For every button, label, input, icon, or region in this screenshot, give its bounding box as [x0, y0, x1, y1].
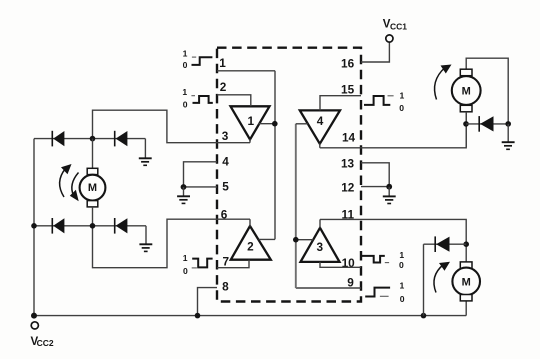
svg-text:1: 1 [183, 49, 188, 59]
svg-text:CC2: CC2 [37, 338, 54, 348]
waveform input pin7 (pulse low) [183, 253, 213, 276]
svg-text:1: 1 [400, 90, 405, 100]
svg-text:2: 2 [220, 80, 227, 94]
svg-text:1: 1 [182, 87, 187, 97]
driver 3 (bottom-right, pointing up) [301, 228, 340, 262]
wire pin16 to VCC1 [361, 42, 389, 62]
wire pin9 to enable line [296, 124, 361, 288]
wire enable tap driver 1 [258, 123, 275, 125]
svg-text:13: 13 [341, 157, 355, 171]
wire pin15 to driver4 input [320, 96, 361, 111]
waveform input pin2 (pulse high) [182, 87, 212, 110]
svg-text:0: 0 [183, 60, 188, 70]
svg-text:3: 3 [317, 240, 324, 254]
svg-text:16: 16 [341, 57, 355, 71]
svg-text:4: 4 [317, 114, 324, 128]
ground pins 4-5 [177, 187, 190, 203]
rotation arrow left motor (double) [60, 164, 79, 201]
pin 3 label [222, 129, 229, 143]
ground upper-left diode row [139, 139, 152, 166]
waveform input pin9 (step up) [365, 281, 405, 304]
node enable junction driver 1 [272, 121, 278, 127]
rotation arrow top right motor [435, 65, 452, 100]
wire enable tap driver 2 [259, 238, 275, 240]
svg-text:2: 2 [247, 240, 254, 254]
svg-text:1: 1 [183, 253, 188, 263]
terminal VCC2 [31, 322, 38, 329]
svg-text:0: 0 [399, 260, 404, 270]
waveform input pin1 (step up) [183, 49, 213, 70]
pin 8 label [222, 280, 229, 294]
node VCC2 rail left corner [31, 313, 37, 319]
pin 2 label [220, 80, 227, 94]
svg-text:1: 1 [400, 281, 405, 291]
svg-text:0: 0 [183, 100, 188, 110]
pin 5 label [222, 180, 229, 194]
node left motor bottom junction [90, 223, 96, 229]
diode D6 (bottom right) [424, 236, 467, 252]
wire D6 to VCC2 rail [423, 244, 425, 315]
wire enable 1,2 vertical [274, 71, 276, 240]
pin 15 label [341, 83, 355, 97]
svg-text:15: 15 [341, 83, 355, 97]
terminal VCC1 [386, 35, 393, 42]
motor M1 (left, bidirectional) [80, 139, 106, 226]
svg-text:M: M [462, 85, 471, 97]
wire pin2 to driver1 input [217, 95, 251, 107]
wire top-right diode row [465, 112, 467, 148]
svg-text:0: 0 [400, 294, 405, 304]
wire pin6 from left motor bottom [93, 219, 251, 268]
wire upper diode row left motor [34, 138, 145, 140]
node left motor top junction [90, 136, 96, 142]
pin 12 label [341, 180, 355, 194]
node diode branch rail junction [421, 313, 427, 319]
wire VCC2 rail [34, 315, 466, 317]
ground pins 12-13 [383, 187, 396, 204]
wire driver4 output stub [319, 143, 321, 148]
diode D5 (top right) [466, 116, 508, 132]
diode D3 (lower-left) [52, 218, 64, 234]
svg-text:14: 14 [342, 131, 356, 145]
svg-text:M: M [462, 276, 471, 288]
wire pin5 to ground [184, 186, 218, 188]
pin 7 label [223, 255, 230, 269]
svg-text:5: 5 [222, 180, 229, 194]
wire pin1 internal to enable line [217, 70, 275, 72]
wire pin11 to right bottom motor [320, 219, 466, 244]
svg-text:12: 12 [341, 180, 355, 194]
node pin12/13 ground junction [386, 184, 392, 190]
node M2 bottom junction [463, 121, 469, 127]
svg-text:3: 3 [222, 129, 229, 143]
wire left rail [33, 139, 35, 316]
driver 4 (top-right, pointing down) [300, 110, 340, 143]
svg-text:CC1: CC1 [390, 22, 407, 32]
label VCC1 [383, 19, 407, 32]
svg-text:10: 10 [342, 256, 356, 270]
node D5 cathode junction [505, 121, 511, 127]
wire driver2 output stub [249, 219, 251, 226]
node pin8 rail junction [195, 313, 201, 319]
IC U1 dashed outline [217, 48, 361, 302]
wire enable tap driver 3 [296, 239, 314, 241]
driver 1 (top-left, pointing down) [231, 106, 270, 139]
svg-text:7: 7 [223, 255, 230, 269]
pin 9 label [347, 275, 354, 289]
pin 11 label [342, 207, 355, 221]
rotation arrow bottom right motor [434, 262, 450, 293]
wire pin4 to ground [184, 162, 218, 187]
driver 2 (bottom-left, pointing up) [231, 226, 271, 260]
node M3 top junction [463, 241, 469, 247]
diode D4 (lower-right) [115, 218, 128, 234]
pin 1 label [219, 56, 226, 70]
wire pin8 to VCC2 rail [198, 288, 218, 316]
wire driver1 output stub [249, 139, 251, 143]
ground top-right [502, 124, 515, 149]
node pin4/5 ground junction [181, 184, 187, 190]
svg-text:0: 0 [183, 266, 188, 276]
pin 4 label [222, 154, 229, 168]
wire pin13 to ground [361, 163, 389, 187]
svg-text:M: M [88, 182, 97, 194]
node left rail lower junction [31, 223, 37, 229]
svg-text:0: 0 [399, 103, 404, 113]
svg-text:8: 8 [222, 280, 229, 294]
svg-text:1: 1 [248, 114, 255, 128]
wire pin12 to ground [361, 186, 389, 188]
wire pin14 to right top motor [320, 112, 466, 148]
wire pin7 to driver2 input [217, 260, 249, 268]
svg-text:4: 4 [222, 154, 229, 168]
wire lower diode row left motor [34, 225, 146, 227]
waveform input pin15 (pulse high) [364, 90, 405, 112]
motor M2 (top right) [452, 58, 508, 124]
svg-text:1: 1 [219, 56, 226, 70]
svg-text:1: 1 [399, 250, 404, 260]
diode D2 (upper-right) [115, 131, 128, 147]
wire enable tap driver 4 [296, 123, 308, 125]
node enable junction driver 3 [293, 237, 299, 243]
diode D1 (upper-left) [52, 131, 64, 147]
wire pin10 to driver3 input [320, 262, 361, 267]
ground lower-left diode row [139, 226, 152, 252]
label VCC2 [31, 336, 54, 348]
wire driver3 output stub [319, 219, 321, 227]
pin 16 label [341, 57, 355, 71]
pin 6 label [221, 208, 228, 222]
motor M3 (bottom right) [452, 244, 480, 315]
waveform input pin10 (pulse low) [360, 250, 404, 270]
pin 14 label [342, 131, 356, 145]
wire pin3 to left motor top [93, 110, 251, 143]
pin 10 label [342, 256, 356, 270]
pin 13 label [341, 157, 355, 171]
